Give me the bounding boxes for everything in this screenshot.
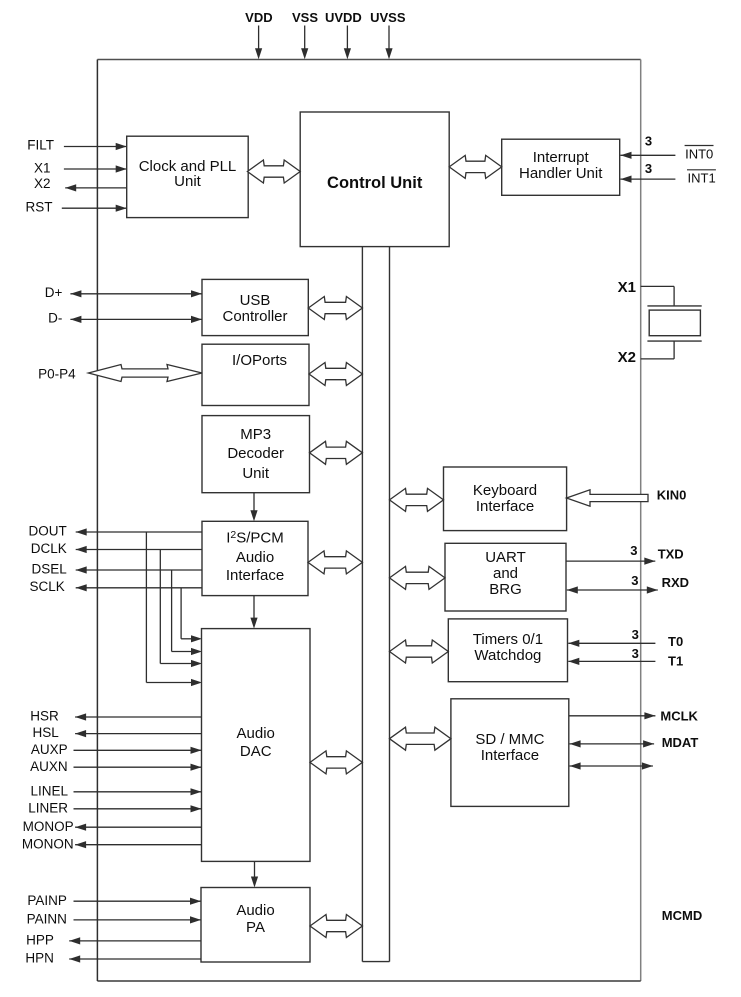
wire HPP output <box>69 940 201 942</box>
svg-text:3: 3 <box>645 134 652 149</box>
port bus arrow P0-P4 <box>88 365 202 382</box>
svg-text:3: 3 <box>630 543 637 558</box>
port arrow KIN0 <box>567 490 649 506</box>
svg-text:I/OPorts: I/OPorts <box>232 352 287 369</box>
block I/OPorts <box>202 344 309 405</box>
svg-text:HSL: HSL <box>33 725 60 740</box>
svg-text:3: 3 <box>632 627 639 642</box>
svg-text:3: 3 <box>632 646 639 661</box>
wire MDAT bidirectional <box>570 743 655 745</box>
wire SCLK output <box>76 587 202 589</box>
wire DCLK output <box>76 549 202 551</box>
wire RST input <box>62 207 127 209</box>
svg-text:T0: T0 <box>668 634 683 649</box>
svg-text:MONON: MONON <box>22 837 74 852</box>
svg-text:3: 3 <box>631 573 638 588</box>
svg-text:P0-P4: P0-P4 <box>38 367 76 382</box>
svg-text:Controller: Controller <box>222 308 287 325</box>
svg-text:SCLK: SCLK <box>30 579 65 594</box>
svg-text:T1: T1 <box>668 654 683 669</box>
wire MONOP output <box>75 826 201 828</box>
svg-text:X2: X2 <box>34 176 51 191</box>
wire T1 input <box>568 660 655 662</box>
svg-text:Interface: Interface <box>476 498 534 515</box>
bus arrow Control-Interrupt <box>449 155 502 178</box>
wire T0 input <box>568 642 655 644</box>
wire FILT input <box>64 146 127 148</box>
wire D+ bidirectional <box>70 293 202 295</box>
wire HPN output <box>69 958 201 960</box>
svg-text:X2: X2 <box>618 349 636 366</box>
svg-text:VSS: VSS <box>292 10 318 25</box>
block Interrupt Handler Unit <box>502 139 620 195</box>
block I2S/PCM Audio Interface <box>202 521 308 595</box>
wire UVSS supply arrow <box>388 26 390 53</box>
svg-text:PAINN: PAINN <box>27 912 67 927</box>
wire DOUT output <box>76 531 202 533</box>
svg-text:Unit: Unit <box>174 173 202 190</box>
block Control Unit <box>300 112 449 247</box>
svg-text:3: 3 <box>645 161 652 176</box>
svg-text:AUXN: AUXN <box>30 759 68 774</box>
block SD / MMC Interface <box>451 699 569 807</box>
crystal bottom electrode <box>647 340 701 342</box>
svg-text:and: and <box>493 565 518 582</box>
bus arrow I2S-bus <box>308 551 362 574</box>
block Keyboard Interface <box>444 467 567 531</box>
wire X2 output <box>65 187 127 189</box>
wire SCLK tap to DAC <box>180 588 182 639</box>
wire MP3 to I2S <box>253 493 255 513</box>
svg-text:Unit: Unit <box>242 465 270 482</box>
svg-text:PA: PA <box>246 919 265 936</box>
block Clock and PLL Unit <box>127 136 249 217</box>
wire MCLK output <box>569 715 656 717</box>
bus arrow SDMMC-bus <box>390 727 451 750</box>
block UART and BRG <box>445 543 566 611</box>
block Timers 0/1 Watchdog <box>448 619 567 682</box>
svg-text:D-: D- <box>48 311 62 326</box>
wire X2 to crystal <box>673 341 675 359</box>
bus arrow MP3-bus <box>310 441 363 464</box>
wire INT1 input <box>621 178 676 180</box>
wire DCLK tap to DAC <box>159 550 161 664</box>
svg-text:UVDD: UVDD <box>325 10 362 25</box>
svg-text:VDD: VDD <box>245 10 272 25</box>
svg-text:LINEL: LINEL <box>30 784 68 799</box>
block USB Controller <box>202 279 308 335</box>
wire PAINP input <box>74 900 202 902</box>
wire HSR output <box>75 716 201 718</box>
svg-text:MP3: MP3 <box>240 426 271 443</box>
svg-text:MCLK: MCLK <box>660 709 698 724</box>
svg-text:INT0: INT0 <box>685 147 713 162</box>
system bus <box>361 247 363 962</box>
svg-text:UVSS: UVSS <box>370 10 406 25</box>
crystal body <box>649 310 700 336</box>
wire AUXP input <box>74 749 202 751</box>
wire I2S to Audio DAC <box>253 596 255 621</box>
wire HSL output <box>75 733 201 735</box>
block Audio DAC <box>202 629 311 862</box>
svg-text:FILT: FILT <box>27 138 54 153</box>
svg-text:USB: USB <box>240 292 271 309</box>
wire LINEL input <box>74 791 202 793</box>
svg-text:HPN: HPN <box>25 951 54 966</box>
svg-text:AUXP: AUXP <box>31 742 68 757</box>
svg-text:UART: UART <box>485 549 526 566</box>
svg-text:TXD: TXD <box>658 547 684 562</box>
svg-text:MCMD: MCMD <box>662 908 702 923</box>
wire PAINN input <box>74 919 202 921</box>
svg-text:MONOP: MONOP <box>23 819 74 834</box>
bus arrow PA-bus <box>310 915 362 938</box>
bus arrow USB-bus <box>308 297 362 320</box>
bus arrow Timers-bus <box>390 640 449 663</box>
svg-text:Audio: Audio <box>236 902 274 919</box>
wire MONON output <box>75 844 201 846</box>
bus arrow Keyboard-bus <box>390 488 444 511</box>
wire DOUT tap to DAC <box>145 532 147 683</box>
svg-text:Interrupt: Interrupt <box>533 149 590 166</box>
svg-text:Control Unit: Control Unit <box>327 174 423 192</box>
svg-text:HPP: HPP <box>26 933 54 948</box>
svg-text:Watchdog: Watchdog <box>474 647 541 664</box>
svg-text:KIN0: KIN0 <box>657 488 687 503</box>
wire DSEL output <box>76 569 202 571</box>
wire TXD output <box>566 560 655 562</box>
svg-text:PAINP: PAINP <box>27 893 67 908</box>
svg-text:DCLK: DCLK <box>31 541 67 556</box>
wire LINER input <box>74 808 202 810</box>
svg-text:DSEL: DSEL <box>32 562 68 577</box>
svg-text:INT1: INT1 <box>688 171 716 186</box>
svg-text:Interface: Interface <box>226 567 284 584</box>
svg-text:RST: RST <box>26 200 53 215</box>
bus arrow DAC-bus <box>310 751 362 774</box>
wire VDD supply arrow <box>258 26 260 53</box>
svg-text:HSR: HSR <box>30 709 59 724</box>
wire RXD bidirectional <box>567 589 658 591</box>
chip outer boundary <box>97 59 640 61</box>
svg-text:Audio: Audio <box>236 549 274 566</box>
wire DAC to Audio PA <box>254 861 256 879</box>
svg-text:DAC: DAC <box>240 743 272 760</box>
svg-text:X1: X1 <box>618 279 636 296</box>
wire DSEL tap to DAC <box>171 570 173 652</box>
wire UVDD supply arrow <box>346 26 348 53</box>
svg-text:Interface: Interface <box>481 747 539 764</box>
svg-text:Audio: Audio <box>237 725 275 742</box>
svg-text:Decoder: Decoder <box>227 445 284 462</box>
svg-text:DOUT: DOUT <box>29 524 67 539</box>
wire X1 to crystal <box>641 285 674 287</box>
svg-text:X1: X1 <box>34 160 51 175</box>
bus arrow IOPorts-bus <box>309 363 362 386</box>
wire SD data bidirectional <box>570 765 653 767</box>
svg-text:D+: D+ <box>45 285 63 300</box>
wire D- bidirectional <box>70 318 202 320</box>
svg-text:RXD: RXD <box>662 575 689 590</box>
wire X1 input <box>64 168 127 170</box>
block Audio PA <box>201 888 310 963</box>
bus arrow UART-bus <box>390 566 446 589</box>
svg-text:Handler Unit: Handler Unit <box>519 165 603 182</box>
svg-text:Keyboard: Keyboard <box>473 482 537 499</box>
wire INT0 input <box>621 154 676 156</box>
svg-text:BRG: BRG <box>489 581 522 598</box>
crystal top electrode <box>647 305 701 307</box>
wire VSS supply arrow <box>304 26 306 53</box>
svg-text:SD / MMC: SD / MMC <box>475 731 544 748</box>
wire AUXN input <box>74 766 202 768</box>
svg-text:LINER: LINER <box>28 801 68 816</box>
svg-text:MDAT: MDAT <box>662 735 699 750</box>
block MP3 Decoder Unit <box>202 416 310 493</box>
svg-text:Timers 0/1: Timers 0/1 <box>473 631 543 648</box>
bus arrow Clock-Control <box>247 160 300 183</box>
